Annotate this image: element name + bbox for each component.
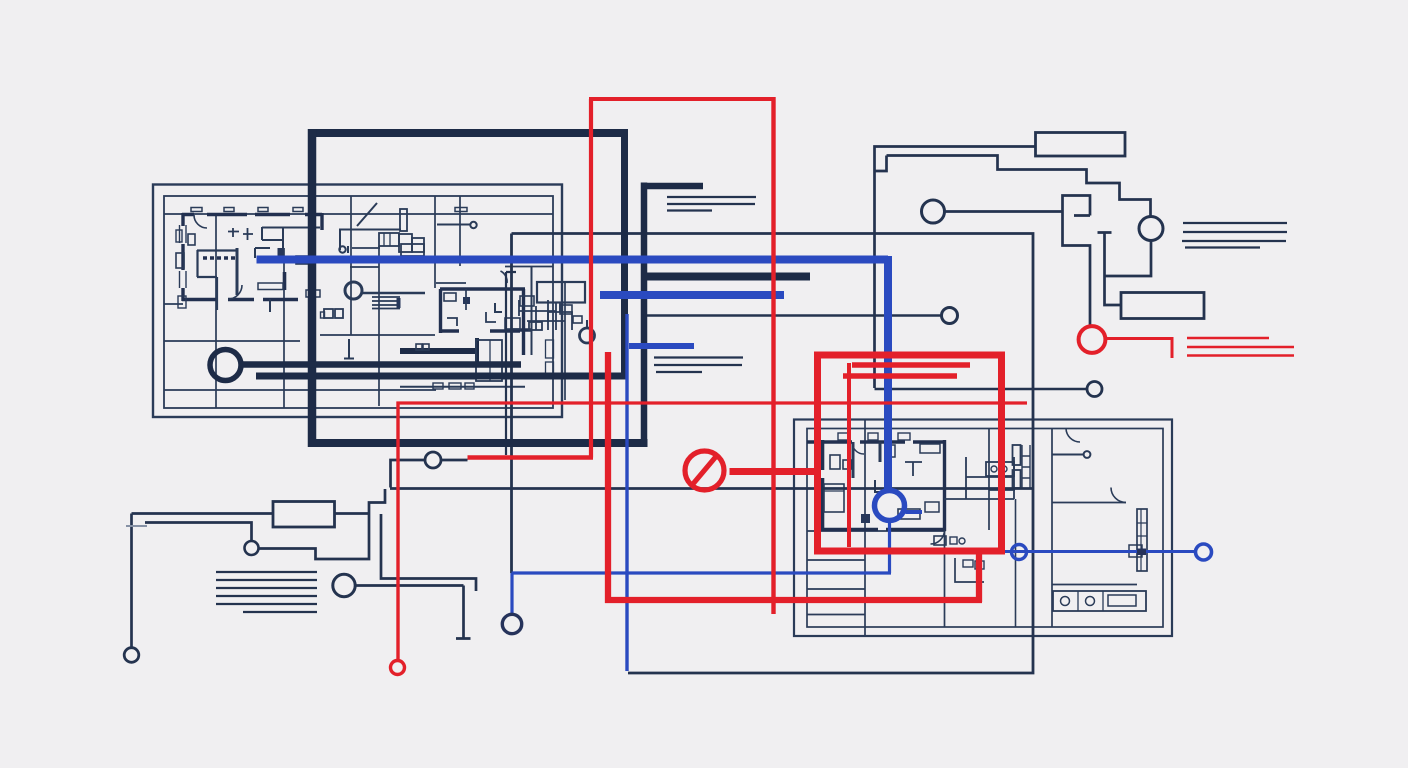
furniture: apartment2 items <box>830 455 840 469</box>
component: ladder detail <box>1022 445 1030 488</box>
furniture: washer boxes <box>324 309 333 318</box>
wall: hallway line <box>989 489 1015 491</box>
component: kitchen block top <box>986 462 1014 476</box>
wire: long horizontal line y=488 <box>390 487 1033 490</box>
wire: blue thin below circle <box>888 521 891 574</box>
door arc apartment2 top <box>852 442 864 454</box>
wire: zigzag trace T2 <box>259 489 386 559</box>
wall: apartment bottom wall <box>182 298 298 301</box>
node: tiny circle <box>470 222 476 228</box>
wall: apartment2 right wall <box>943 440 946 531</box>
wire: small jog connector <box>875 156 887 172</box>
wall: apartment left wall <box>181 213 184 301</box>
wire: bottom-left trace with terminal <box>130 514 133 649</box>
wire: thick frame top edge <box>308 129 628 137</box>
wire: corner trace with tiny circle <box>340 230 401 254</box>
node: medium circle in plan <box>345 282 362 299</box>
wire: blue bar1 long horizontal y=259 <box>257 256 889 264</box>
node: tiny circle 2 <box>339 246 345 252</box>
wire: c3 to right with T end <box>356 586 471 639</box>
component: cabinet strip right <box>1137 509 1147 571</box>
node: blue circle at 1019,552 <box>1012 545 1027 560</box>
wire: red vertical x=849 <box>847 363 851 547</box>
label lines right navy group <box>1182 223 1287 248</box>
wire: blue thin vertical x=627 <box>625 314 628 671</box>
wall: apartment top wall <box>182 213 322 216</box>
furniture: bottom row rects <box>433 383 443 389</box>
furniture: box at x=529 <box>529 322 542 330</box>
wire: c1 left corner down to long line <box>391 460 426 488</box>
wire: box B1 to risers <box>335 512 369 515</box>
label bar red 2 <box>843 373 957 379</box>
wire: blue segment below x=512 <box>510 573 513 614</box>
wire: blue thick vertical x=888 <box>884 256 892 491</box>
furniture: couch squares <box>416 344 422 350</box>
wire: c1 right short <box>441 459 468 462</box>
door arc right room <box>1111 488 1126 503</box>
wall: inner wall x=237 <box>236 248 239 295</box>
wire: riser thick x=477 <box>475 338 479 362</box>
component: notched box <box>1063 196 1091 326</box>
wire: thick navy bar D y=276 <box>641 273 810 281</box>
wire: vertical x=506 stub <box>506 272 516 455</box>
furniture: table marks top <box>228 228 253 240</box>
wall: closet top-right <box>262 227 320 248</box>
node: tiny circle right room <box>1084 451 1091 458</box>
wire: diagonal roof line <box>357 203 377 226</box>
wire: staircase trace top-right <box>887 156 1151 217</box>
wall: apartment right wall <box>320 213 323 230</box>
label lines center-top group <box>667 197 756 211</box>
node: circle at 587,335 <box>580 328 595 343</box>
furniture: teeth marks <box>203 256 235 259</box>
wall: thick bar y=351 <box>400 348 479 354</box>
furniture: extra marks apartment <box>296 256 314 264</box>
no-entry symbol slash <box>693 457 717 485</box>
wire: grid short y=304 <box>164 303 183 305</box>
wire: tiny circle trace top <box>437 224 470 226</box>
node: blue circle at 890,505 <box>875 491 905 521</box>
node: dark junction on blue line <box>1137 549 1146 556</box>
wire: large thin rectangle right/top/bottom edges <box>512 234 1034 674</box>
furniture: bracket <box>495 303 502 312</box>
wall: kitchen walls <box>944 457 1014 499</box>
wire: red thin rect right edge <box>771 97 775 614</box>
wire: tiny circle trace right room <box>1052 454 1083 456</box>
furniture: apartment2 bed <box>824 484 844 512</box>
component: lower fixture box <box>476 340 502 381</box>
furniture: top wall tabs <box>191 208 202 212</box>
LEFT-PLAN <box>153 185 595 418</box>
RIGHT-PLAN <box>794 420 1172 637</box>
node: large thick circle left <box>210 350 241 381</box>
furniture: top tabs <box>838 433 850 440</box>
furniture: fixtures small <box>934 536 946 545</box>
wire: thick vertical v2 x=644 <box>641 183 648 447</box>
label bar red 1 <box>852 362 970 368</box>
label lines bottom-left group <box>216 572 317 612</box>
TRACES <box>124 133 1287 663</box>
wire: riser T3 and shelf trace <box>381 514 476 591</box>
wire: trace with tick to node c2 <box>145 523 252 542</box>
RED <box>391 97 1295 675</box>
wire: grid lines left plan <box>164 196 565 408</box>
wall: big room center <box>440 289 525 355</box>
furniture: mid room items <box>444 293 456 301</box>
wire: red staple right riser <box>976 549 982 602</box>
wire: red bar from no-entry to rect <box>730 468 820 475</box>
wire: thick frame bottom edge <box>308 439 648 447</box>
furniture: cluster rects <box>399 234 412 252</box>
wall: apartment2 inner walls <box>853 442 880 478</box>
wire: blue bar E y=295 <box>600 291 784 299</box>
furniture: apartment2 closet marks <box>886 445 895 457</box>
component: red thick rectangle <box>818 355 1002 551</box>
wire: grid vertical x=1015 <box>1015 499 1017 627</box>
wire: horizontal line y=389 to node <box>875 388 1087 391</box>
wire: vertical with T cap <box>1098 233 1121 306</box>
furniture: small rect near circle <box>573 316 582 323</box>
wire: steps below box <box>548 302 572 330</box>
wire: red long horizontal y=403 <box>397 401 1028 404</box>
furniture: door square <box>463 297 470 304</box>
node circle at 1094,389 <box>1087 382 1102 397</box>
wire: grid lines right plan <box>807 420 1137 637</box>
furniture: shelf lines stack <box>372 297 400 309</box>
component: stacked door rects <box>1013 445 1021 465</box>
node circle at 131,655 <box>124 648 139 663</box>
door arc apartment top <box>194 215 207 228</box>
node circle c1 <box>425 452 441 468</box>
door arc top right room <box>1066 429 1080 443</box>
component: left plan outer frame <box>153 185 562 418</box>
component: kitchen band bottom <box>1053 591 1146 611</box>
wall: window double lines left <box>180 225 187 288</box>
node circle at 1151,228 <box>1139 217 1163 241</box>
wire: large rectangle left edge <box>510 234 513 574</box>
wall: wall y=330 segment <box>510 328 531 331</box>
component: right rectangle block <box>1121 293 1204 319</box>
wire: horizontal into box B1 <box>132 512 274 515</box>
node: red circle right side <box>1079 326 1106 353</box>
label lines red right group <box>1187 338 1294 356</box>
wire: line from medium circle <box>362 292 425 294</box>
wire: red horizontal y=457 <box>468 455 594 459</box>
BIGRECT <box>390 234 1102 674</box>
component: left plan inner frame <box>164 196 553 408</box>
furniture: left column fixtures <box>176 253 184 268</box>
wall: apartment2 top wall <box>807 440 946 444</box>
THICKNAVY <box>210 129 810 447</box>
wire: blue stub right of circle <box>906 510 923 514</box>
wall: inner room walls <box>197 250 237 310</box>
BLUE <box>257 256 1212 671</box>
node circle c2 <box>245 541 259 555</box>
wire: red vertical x=398 <box>396 402 399 661</box>
door arc apartment inner <box>228 285 242 299</box>
wire: from circle to notched box <box>945 210 1063 213</box>
wire: red thin rect left edge <box>589 99 593 458</box>
wire: blue line y=552 right side <box>1002 550 1196 553</box>
component: chimney rect <box>400 209 407 231</box>
wire: red staple bottom horizontal <box>605 597 982 603</box>
wire: thick short bar y=186 <box>641 183 703 190</box>
node circle at 949,315 <box>942 308 958 324</box>
wire: blue bar3 y=346 <box>629 343 694 349</box>
wire: blue thin horizontal y=573 <box>512 571 892 574</box>
component: box B1 <box>273 502 335 528</box>
no-entry symbol circle <box>685 451 724 490</box>
component: top-right rectangle block <box>1036 133 1126 157</box>
wall: apartment2 bottom wall <box>819 528 946 531</box>
wire: stub above circle <box>586 320 588 328</box>
furniture: cabinet mark <box>1129 545 1142 557</box>
wire: top-right trace from rect to left vertical <box>875 147 1036 389</box>
node circle at 933,211 <box>922 200 945 223</box>
furniture: oven mark <box>925 502 939 512</box>
wall: mid room extra walls <box>352 196 466 310</box>
furniture: stub with foot <box>344 339 354 359</box>
node: blue circle terminal at 1203,552 <box>1196 544 1212 560</box>
wire: red thin rect top edge <box>589 97 776 101</box>
wire: below circle to left <box>1106 241 1152 277</box>
component: window band rect <box>379 233 399 246</box>
wire: line y=386.7 <box>400 386 525 388</box>
component: right plan outer frame <box>794 420 1172 637</box>
component: right fixtures box <box>537 282 585 303</box>
node: red circle terminal at 398,667 <box>391 661 405 675</box>
component: right plan inner frame <box>807 429 1163 628</box>
furniture: dark rect door jamb <box>278 248 284 258</box>
door arc big room <box>501 271 508 283</box>
label lines center-mid group <box>654 358 743 373</box>
node circle c3 <box>333 574 355 596</box>
wire: vertical x=531 <box>531 266 533 355</box>
node: dark circle at 512,624 <box>502 614 521 633</box>
furniture: shelf box <box>258 283 283 290</box>
wire: thick bar1 from circle <box>241 361 521 368</box>
furniture: right edge window cells <box>546 340 554 358</box>
wire: horizontal line y=315 to node <box>645 314 941 317</box>
wire: thick vertical v1 x=624.5 <box>621 130 628 380</box>
wall: bathroom hash cluster <box>519 300 565 330</box>
wire: red staple left vertical <box>605 352 611 603</box>
wall: short wall seg <box>283 272 287 290</box>
wire: thick frame left edge <box>308 129 317 447</box>
wall: apartment2 left wall <box>821 440 825 531</box>
wire: thick bar2 horizontal y=376 <box>256 373 628 380</box>
wire: red from circle with corner down <box>1106 339 1172 359</box>
door arc apartment2 <box>931 530 945 544</box>
